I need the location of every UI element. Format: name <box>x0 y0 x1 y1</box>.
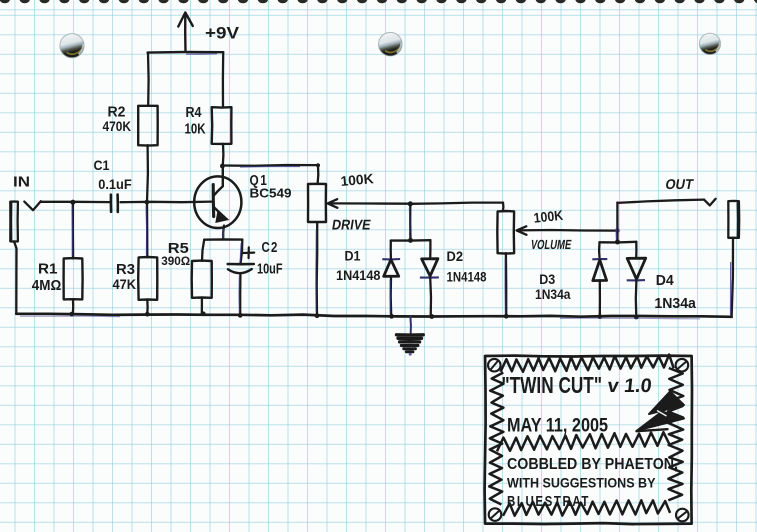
wire D1 bottom leg <box>390 276 393 316</box>
diode D4 anode bar <box>627 279 645 281</box>
wire Drive pot bottom leg <box>316 222 319 316</box>
svg-text:COBBLED BY PHAETON,: COBBLED BY PHAETON, <box>507 456 678 473</box>
wire input hook (tip contact) <box>24 201 41 210</box>
wire collector to Drive pot <box>223 164 318 167</box>
node D3-ground rail <box>597 314 602 319</box>
node collector junction <box>220 164 225 169</box>
wire output node vertical <box>616 203 618 243</box>
svg-text:47K: 47K <box>113 277 137 292</box>
svg-text:R1: R1 <box>38 261 58 278</box>
wire down to Drive pot top <box>316 165 319 184</box>
wire C2 bottom leg <box>239 274 241 316</box>
svg-text:D2: D2 <box>447 249 464 264</box>
svg-text:10K: 10K <box>185 122 206 138</box>
wire to output jack <box>617 200 704 203</box>
node D3-D4 tee <box>615 240 620 245</box>
title block corner screws <box>488 359 501 372</box>
svg-text:OUT: OUT <box>664 177 695 193</box>
wire D1-D2 top bar <box>391 239 431 242</box>
svg-text:BC549: BC549 <box>250 185 292 200</box>
diode D3 cathode bar <box>592 258 607 260</box>
resistor R4 <box>212 107 232 144</box>
wire R4 top leg <box>222 52 225 107</box>
wire input to C1 <box>41 201 111 204</box>
wire Volume pot bottom leg <box>505 253 508 316</box>
wire ground stem <box>409 317 412 335</box>
wire top +9V rail <box>148 51 224 54</box>
title block zigzag border <box>501 355 674 372</box>
title block outer frame <box>485 356 692 524</box>
diode D2 (1N4148) <box>422 259 438 276</box>
svg-text:4MΩ: 4MΩ <box>32 278 62 294</box>
svg-text:0.1uF: 0.1uF <box>98 177 132 192</box>
svg-text:IN: IN <box>13 175 30 191</box>
diode D4 (1N34a) <box>627 258 646 279</box>
ground symbol <box>397 333 424 337</box>
svg-text:R3: R3 <box>116 261 135 278</box>
node R5-ground rail <box>201 311 206 316</box>
svg-text:1N4148: 1N4148 <box>447 270 487 285</box>
svg-text:1N4148: 1N4148 <box>336 268 381 283</box>
wire output hook (tip contact) <box>704 199 716 206</box>
node D1-ground rail <box>389 314 394 319</box>
svg-text:100K: 100K <box>340 171 374 189</box>
capacitor C1 <box>110 195 113 212</box>
wire R2 bottom leg <box>146 145 149 202</box>
svg-text:WITH SUGGESTIONS BY: WITH SUGGESTIONS BY <box>507 476 656 492</box>
wire wiper junction down <box>409 204 412 241</box>
svg-text:C1: C1 <box>94 158 110 173</box>
wire Q1 emitter leg <box>222 226 225 240</box>
resistor R5 <box>192 261 212 298</box>
capacitor C2 (polarized) <box>228 263 254 266</box>
resistor R3 <box>138 257 157 300</box>
wire R3 bottom leg <box>146 300 149 314</box>
wire C2 top leg <box>241 240 243 264</box>
diode D2 cathode bar <box>420 276 439 278</box>
svg-text:"TWIN CUT": "TWIN CUT" <box>502 372 603 398</box>
node Drive-ground rail <box>315 313 320 318</box>
wire D1 top leg <box>390 241 392 259</box>
wire R2 top leg <box>147 53 150 106</box>
node Volume-ground rail <box>504 314 509 319</box>
svg-text:v 1.0: v 1.0 <box>606 375 652 397</box>
wire ground rail (bottom bus) <box>16 314 240 315</box>
svg-text:+9V: +9V <box>205 24 240 43</box>
node D1-D2 tee <box>408 238 413 243</box>
diode D3 (1N34a) <box>593 260 607 281</box>
svg-text:390Ω: 390Ω <box>161 254 190 268</box>
svg-text:C2: C2 <box>262 240 279 256</box>
svg-text:DRIVE: DRIVE <box>331 218 372 234</box>
wire R5 bottom leg <box>201 298 203 314</box>
diode D1 (1N4148) <box>384 260 399 277</box>
wire wiper junction to Volume pot <box>410 203 503 204</box>
svg-text:VOLUME: VOLUME <box>530 237 573 252</box>
node R1-ground rail <box>69 312 74 317</box>
wire D3 bottom leg <box>599 281 601 317</box>
node wiper-output junction <box>615 228 620 233</box>
wire R1 bottom leg <box>72 299 75 314</box>
diode D1 cathode bar <box>382 258 400 260</box>
wire R4 bottom leg (collector) <box>222 144 225 166</box>
wire down to Volume pot top <box>502 203 505 212</box>
wire emitter bar <box>204 238 242 241</box>
potentiometer VR2 Volume 100K <box>497 211 514 254</box>
svg-text:D4: D4 <box>656 273 674 289</box>
wire C1 to base <box>121 200 213 203</box>
svg-text:1N34a: 1N34a <box>535 287 571 302</box>
potentiometer VR1 Drive 100K <box>308 184 326 222</box>
node base-bias junction <box>145 200 150 205</box>
svg-text:10uF: 10uF <box>257 262 283 278</box>
svg-text:BLUESTRAT: BLUESTRAT <box>507 494 590 510</box>
wire R1 top leg <box>72 202 74 258</box>
node D2-ground rail <box>429 314 434 319</box>
wire R5 top leg <box>202 240 204 261</box>
wire output jack to ground rail <box>732 238 733 317</box>
transistor Q1 (NPN BC549) <box>194 176 241 228</box>
wire D2 bottom leg <box>429 278 432 317</box>
node R1 tap junction <box>70 200 75 205</box>
title block arrow emblem <box>649 392 684 415</box>
power +9V supply arrow <box>184 14 187 52</box>
svg-text:D1: D1 <box>345 248 361 263</box>
wire D3 top leg <box>598 242 601 258</box>
svg-text:MAY 11, 2005: MAY 11, 2005 <box>507 415 608 437</box>
node R3-ground rail <box>145 312 150 317</box>
node C2-ground rail <box>238 313 243 318</box>
node wiper junction <box>408 201 413 206</box>
resistor R2 <box>138 106 158 146</box>
wire D4 bottom leg <box>635 280 638 317</box>
wire Drive wiper arrow <box>329 202 410 205</box>
wire input jack to ground rail <box>14 241 17 313</box>
wire D2 top leg <box>429 240 431 259</box>
input jack J-in <box>10 202 18 242</box>
svg-text:D3: D3 <box>539 272 555 287</box>
svg-text:470K: 470K <box>103 119 132 134</box>
node D4-ground rail <box>634 315 639 320</box>
wire R3 top leg <box>146 202 149 257</box>
wire D4 top leg <box>635 242 638 258</box>
wire Volume wiper arrow <box>518 229 617 232</box>
resistor R1 <box>64 258 83 299</box>
svg-text:100K: 100K <box>533 208 564 226</box>
wire D3-D4 top bar <box>600 241 637 244</box>
output jack J-out <box>728 201 739 238</box>
svg-text:1N34a: 1N34a <box>654 296 696 312</box>
node wire corner <box>316 163 320 167</box>
svg-text:R4: R4 <box>186 104 203 121</box>
label C2 polarity + <box>243 247 254 258</box>
